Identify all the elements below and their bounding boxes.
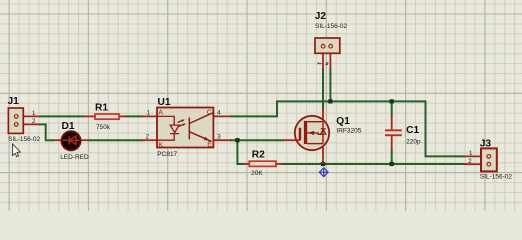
svg-text:4: 4 [217,110,221,117]
U1 pin lead 3 (E) [214,139,232,141]
U1 pin lead 2 (K) [142,139,157,141]
svg-text:20K: 20K [251,170,263,177]
wire J2.2 down to top rail dot [329,70,331,102]
svg-text:SIL-156-02: SIL-156-02 [8,136,41,143]
svg-text:R1: R1 [95,103,108,114]
svg-text:LED-RED: LED-RED [60,154,89,161]
svg-text:PC817: PC817 [157,151,177,158]
J1 pad circle 1 [14,115,18,119]
J3 pin lead 1 [465,155,487,157]
U1 phototransistor [189,113,214,141]
source stub [307,143,323,145]
C1 top lead [391,116,393,129]
J2 pin lead 2 [329,46,331,70]
J1 pad circle 2 [14,123,18,127]
C1 bottom plate [385,134,402,136]
J1 pin lead 2 [20,123,40,125]
R2 body [249,161,276,166]
J2 pad circle 2 [329,44,333,48]
wire bottom rail [284,163,466,165]
J3 body [481,148,497,171]
junction dot D (C1 / bottom rail) [390,162,394,166]
wire top rail to C1 and riser to J3.1 [330,101,465,156]
wire J1.1 to R1 [40,115,84,117]
R2 right lead [276,163,284,165]
J2 pin number 2 (rotated) [326,63,328,65]
svg-text:1: 1 [147,110,151,117]
D1 right lead [79,139,88,141]
D1 left lead [53,139,63,141]
Q1 gate lead [283,139,297,141]
svg-text:2: 2 [146,134,150,141]
junction dot E (C1 / top rail) [390,99,394,103]
J2 pin number 1 (rotated) [318,63,322,64]
junction dot B (gate / R2) [235,138,239,142]
svg-text:750k: 750k [96,124,111,131]
svg-text:U1: U1 [158,97,171,108]
svg-text:SIL-156-02: SIL-156-02 [480,173,513,180]
svg-text:Q1: Q1 [336,116,350,127]
svg-text:2: 2 [468,158,472,165]
U1 pin lead 4 (C) [214,115,232,117]
svg-text:3: 3 [217,134,221,141]
svg-text:C1: C1 [406,125,419,136]
wire U1.E to gate junction [231,139,283,141]
wire C1 bottom lead [391,150,393,164]
wire R1 to U1.A [126,115,142,117]
J3 pin lead 2 [465,163,487,165]
junction dot C (Q1 source / bottom rail) [321,162,325,166]
U1 pin lead 1 (A) [142,115,157,117]
svg-text:K: K [158,142,163,149]
body diode [321,129,326,134]
J3 pad circle 2 [487,162,491,166]
body stub with arrow [307,133,323,134]
U1 internal LED [158,116,186,140]
svg-text:220p: 220p [406,139,421,146]
LED arrows [178,120,184,123]
svg-text:R2: R2 [252,150,265,161]
Q1 mosfet symbol [296,121,326,144]
svg-text:1: 1 [469,150,473,157]
J3 pad circle 1 [487,155,491,159]
C1 top plate [385,129,402,131]
svg-text:SIL-156-02: SIL-156-02 [315,23,348,30]
Q1 body circle [295,116,329,150]
drain stub [307,121,323,123]
wire C1 top lead [391,101,393,116]
J1 pin lead 1 [20,115,40,117]
svg-text:J2: J2 [315,11,327,22]
R1 right lead [120,115,127,117]
svg-text:J1: J1 [8,96,20,107]
svg-text:A: A [158,109,163,116]
D1 diode symbol [63,136,80,144]
svg-text:IRF3205: IRF3205 [336,127,361,134]
Q1 drain lead [322,109,324,122]
R1 left lead [84,115,96,117]
svg-text:2: 2 [32,118,36,125]
junction dot A (top rail / J2.2) [328,99,332,103]
wire J1.2 down to D1 [40,124,53,140]
U1 body [157,108,213,148]
svg-text:E: E [207,141,212,148]
conductor vertical [322,122,324,144]
J2 pin lead 1 [322,46,324,70]
wire J2.1 down to Q1 drain [322,70,324,110]
J2 body [315,38,340,53]
wire junction down to R2 [237,140,243,164]
wire U1.C to top rail [231,101,330,116]
Q1 source lead [322,144,324,164]
svg-text:D1: D1 [62,121,75,132]
C1 bottom lead [391,136,393,150]
J2 pad circle 1 [321,44,325,48]
wire D1 to U1.K [88,139,141,141]
R2 left lead [244,163,250,165]
origin marker (blue) [319,168,328,177]
R1 body [95,114,119,119]
gate lead inside + gate bar [296,139,301,141]
svg-text:1: 1 [32,110,36,117]
J1 body [8,108,23,133]
D1 body circle [61,131,80,150]
channel bar [304,121,307,144]
